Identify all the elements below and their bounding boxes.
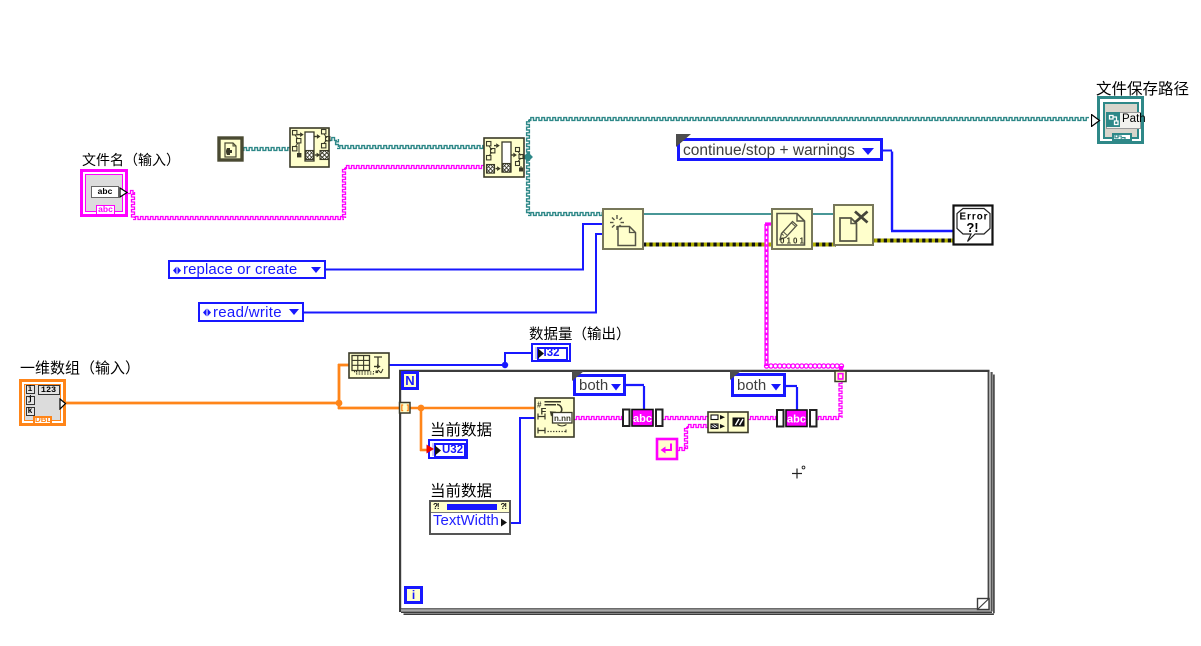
- wire: blue array-size to I32 indicator: [389, 352, 531, 366]
- label: 当前数据 (U32): [430, 418, 492, 440]
- svg-text:n.nn: n.nn: [554, 414, 571, 423]
- function: Simple Error Handler: [954, 206, 993, 245]
- node: orange junction at array-size branch: [336, 400, 343, 407]
- enum: both (first): [573, 374, 626, 396]
- wire: blue enum both1 to trim1: [626, 385, 644, 409]
- wire: magenta string-array tunnel to write-file (dotted vertical + bubbles): [765, 224, 844, 372]
- constant: current VI path: [219, 138, 242, 160]
- tunnel: loop top string-array output: [835, 371, 846, 382]
- node: orange junction inside loop: [418, 405, 425, 412]
- control: TextWidth slider: [429, 500, 511, 535]
- function: Close File: [834, 205, 873, 245]
- enum marker triangle (continue/stop): [676, 134, 691, 147]
- function: Trim Whitespace 1: [623, 410, 663, 427]
- function: Strip Path: [290, 128, 330, 167]
- wire: orange tunnel to number-to-fractional-string and U32: [410, 408, 535, 451]
- enum marker triangle (both 2): [730, 370, 742, 380]
- wire: magenta num-to-string to trim1: [574, 417, 623, 420]
- svg-text:abc: abc: [787, 414, 806, 426]
- function: Open/Create/Replace File: [603, 209, 643, 249]
- wire: error cluster open-create to close (yellow/black dashed): [643, 243, 836, 247]
- wire: orange 1D array control to array-size and loop tunnel: [64, 364, 401, 409]
- ring: replace or create: [168, 260, 326, 279]
- wire: blue enum both2 to trim2: [786, 386, 797, 410]
- node: blue junction below I32: [502, 362, 508, 368]
- wire: blue ring replace-or-create to open-create: [326, 223, 603, 271]
- function: Write to Text File: [772, 209, 812, 249]
- indicator: path 文件保存路径: [1097, 96, 1144, 144]
- wire: magenta concatenate to trim2: [748, 417, 777, 420]
- control: 1D array DBL 一维数组: [19, 379, 66, 426]
- wire: teal path current-vi-path to strip-path: [241, 148, 290, 151]
- wire: magenta string control to build-path: [128, 166, 484, 220]
- wire: magenta trim1 to concatenate: [663, 417, 708, 420]
- function: Array Size: [349, 353, 389, 378]
- control: string 文件名 (abc): [80, 169, 128, 217]
- for loop border: [399, 370, 994, 614]
- label: 文件名（输入）: [82, 150, 180, 170]
- label: 文件保存路径: [1096, 77, 1189, 99]
- indicator: U32 当前数据: [428, 439, 468, 459]
- function: Concatenate Strings: [708, 412, 748, 433]
- function: Number To Fractional String: [535, 398, 574, 437]
- mouse cursor: [792, 466, 805, 478]
- enum: both (second): [731, 373, 786, 397]
- function: Build Path: [484, 138, 524, 177]
- wire: blue textwidth to number-to-fractional-string: [511, 417, 535, 524]
- label: 当前数据 (TextWidth): [430, 479, 492, 501]
- terminal: loop iteration i: [404, 586, 423, 604]
- wire: teal path strip-path to build-path: [329, 138, 484, 149]
- wire: teal path build-path output to path indicator (top) and to open-create (down): [524, 118, 1089, 216]
- enum marker triangle (both 1): [572, 371, 584, 381]
- svg-text:abc: abc: [633, 413, 652, 425]
- constant: end-of-line (carriage return): [657, 439, 677, 459]
- ring: read/write: [198, 302, 304, 322]
- svg-text:0101: 0101: [780, 237, 805, 246]
- wire: magenta trim2 to output tunnel: [816, 381, 842, 420]
- label: 一维数组（输入）: [20, 357, 140, 378]
- wire: magenta CR constant to concatenate: [677, 425, 708, 451]
- wire: error cluster close to error handler: [871, 239, 954, 243]
- tunnel: loop left auto-index: [400, 403, 411, 414]
- label: 数据量（输出）: [529, 323, 631, 344]
- indicator: I32 数据量: [531, 343, 571, 362]
- terminal: loop count N: [401, 371, 419, 390]
- wire: blue ring read-write to open-create: [304, 233, 603, 314]
- enum: continue/stop + warnings: [677, 138, 883, 161]
- function: Trim Whitespace 2: [777, 410, 817, 427]
- for loop resize handle: [978, 599, 990, 610]
- node: build-path output junction (teal diamond): [523, 152, 533, 162]
- wire: teal refnum open-create to close file (solid): [643, 213, 834, 215]
- svg-text:?!: ?!: [966, 220, 978, 235]
- wire: blue enum continue-stop to error handler: [883, 151, 954, 232]
